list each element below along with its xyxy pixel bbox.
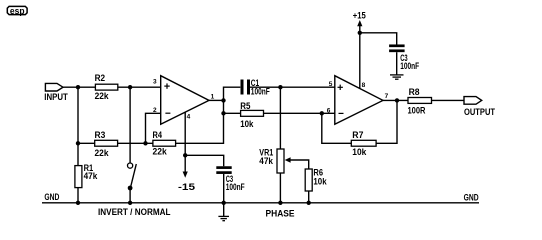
node rail R1	[76, 201, 80, 205]
wire junction up to pin 2	[146, 113, 161, 143]
svg-text:R8: R8	[409, 87, 420, 97]
switch label	[98, 207, 171, 217]
op-amp U1B	[335, 76, 383, 125]
+15 label	[353, 11, 366, 21]
capacitor C3 (upper)	[389, 46, 405, 51]
R8 labels	[408, 87, 426, 115]
svg-text:100nF: 100nF	[400, 61, 419, 71]
wire R6 to rail	[308, 191, 310, 203]
resistor R4	[153, 140, 176, 146]
svg-text:R7: R7	[352, 130, 363, 140]
resistor R3	[95, 140, 118, 146]
node output2 junction	[395, 98, 399, 102]
svg-text:100nF: 100nF	[251, 87, 270, 97]
svg-text:22k: 22k	[153, 147, 168, 157]
VR1 labels	[259, 148, 273, 166]
wire C3 to rail and ground	[223, 174, 225, 216]
svg-text:3: 3	[153, 79, 157, 86]
wire R4 to feedback node	[176, 87, 241, 143]
svg-text:PHASE: PHASE	[266, 208, 295, 218]
wire op-amp1 output	[209, 99, 224, 101]
svg-text:22k: 22k	[95, 91, 110, 101]
wire R1 to ground rail	[77, 188, 79, 203]
wire R7 feedback	[322, 113, 352, 143]
resistor R2	[95, 84, 117, 90]
svg-text:GND: GND	[464, 193, 479, 203]
+15 supply arrow	[357, 20, 362, 26]
svg-text:47k: 47k	[259, 156, 273, 166]
C1 labels	[251, 78, 270, 96]
R7 labels	[352, 130, 367, 157]
wire input drop to R1	[77, 87, 79, 165]
svg-text:R2: R2	[95, 73, 106, 83]
node rail switch	[128, 201, 132, 205]
node rail C3	[222, 201, 226, 205]
capacitor C3 (lower)	[216, 168, 231, 173]
resistor R6	[305, 169, 312, 191]
gnd label right	[464, 193, 479, 203]
svg-text:OUTPUT: OUTPUT	[464, 107, 495, 117]
svg-text:100R: 100R	[408, 106, 426, 116]
svg-text:+15: +15	[353, 11, 366, 21]
svg-text:8: 8	[362, 82, 366, 89]
svg-text:10k: 10k	[313, 176, 327, 186]
output connector	[464, 97, 482, 105]
ground rail	[42, 202, 479, 204]
node C1 output junction	[278, 85, 282, 89]
-15 supply arrow	[183, 172, 188, 178]
potentiometer VR1	[277, 149, 291, 173]
resistor R5	[241, 110, 264, 116]
ground symbol (upper)	[390, 75, 404, 79]
wire +15 to C3 upper	[360, 33, 397, 45]
R3 labels	[95, 130, 110, 158]
svg-text:1: 1	[211, 94, 215, 101]
wire VR1 to rail	[279, 173, 281, 203]
svg-text:6: 6	[327, 107, 331, 114]
resistor R8	[408, 98, 432, 104]
node pin6 junction	[320, 111, 324, 115]
node rail VR1	[278, 201, 282, 205]
capacitor C1	[242, 80, 249, 95]
svg-text:R5: R5	[240, 101, 250, 111]
input label	[44, 92, 68, 102]
wire R5 row	[224, 112, 241, 114]
wire switch to rail	[129, 188, 131, 203]
wire R2 to op-amp pin 3	[118, 86, 161, 88]
-15 label	[178, 182, 195, 192]
wire input to R2	[63, 86, 95, 88]
C3 upper labels	[400, 53, 419, 71]
svg-text:100nF: 100nF	[226, 182, 245, 192]
svg-text:esp: esp	[10, 6, 25, 17]
node output junction	[221, 98, 225, 102]
node R5 tap junction	[221, 111, 225, 115]
phase label	[266, 208, 295, 218]
C3 lower labels	[226, 174, 245, 192]
svg-text:-15: -15	[178, 182, 195, 192]
wire to C3 decoupling	[185, 155, 224, 166]
R1 labels	[84, 163, 98, 181]
op-amp U1A	[161, 76, 209, 125]
gnd label left	[44, 192, 59, 202]
wire +15 to pin 8	[359, 25, 361, 88]
svg-text:7: 7	[385, 93, 389, 100]
svg-text:4: 4	[187, 113, 191, 120]
wire R2 junction down to switch	[129, 87, 131, 163]
wire C3 upper to ground	[396, 52, 398, 74]
node +15 junction	[358, 31, 362, 35]
svg-text:10k: 10k	[352, 147, 367, 157]
wire op-amp2 output	[383, 99, 408, 101]
node inverting input junction	[143, 141, 147, 145]
output label	[464, 107, 495, 117]
node rail R6	[307, 201, 311, 205]
wire R3 to R4	[118, 142, 153, 144]
wire R7 to output node	[376, 100, 397, 143]
svg-text:R3: R3	[95, 130, 106, 140]
node input junction	[76, 85, 80, 89]
svg-text:47k: 47k	[84, 171, 98, 181]
svg-text:22k: 22k	[95, 148, 110, 158]
node R3 left junction	[76, 141, 80, 145]
svg-text:INVERT / NORMAL: INVERT / NORMAL	[98, 207, 171, 217]
wire pin 4 drop	[184, 113, 186, 172]
svg-text:R4: R4	[153, 130, 163, 140]
resistor R1	[75, 166, 82, 188]
R6 labels	[313, 168, 327, 187]
svg-text:2: 2	[153, 107, 157, 114]
R5 labels	[240, 101, 254, 129]
resistor R7	[351, 140, 376, 146]
svg-text:INPUT: INPUT	[44, 92, 68, 102]
U1A pin numbers	[153, 79, 215, 121]
svg-text:5: 5	[329, 81, 333, 88]
svg-text:10k: 10k	[240, 119, 254, 129]
wire wiper to R6	[290, 160, 309, 169]
wire R3 row left	[78, 142, 95, 144]
switch SW1 invert/normal	[128, 163, 137, 190]
R2 labels	[95, 73, 110, 101]
svg-text:GND: GND	[44, 192, 59, 202]
wire C1 to pin 5	[250, 86, 335, 88]
wire R8 to output connector	[432, 99, 465, 101]
U1B pin numbers	[327, 81, 389, 115]
input connector	[45, 83, 63, 91]
wire R5 to pin 6	[264, 112, 335, 114]
node R2 right junction	[128, 85, 132, 89]
wire C1 node down to VR1	[279, 87, 281, 149]
R4 labels	[153, 130, 168, 156]
ESP logo	[7, 6, 27, 17]
node pin4 junction	[183, 153, 187, 157]
ground symbol (lower)	[218, 216, 229, 220]
